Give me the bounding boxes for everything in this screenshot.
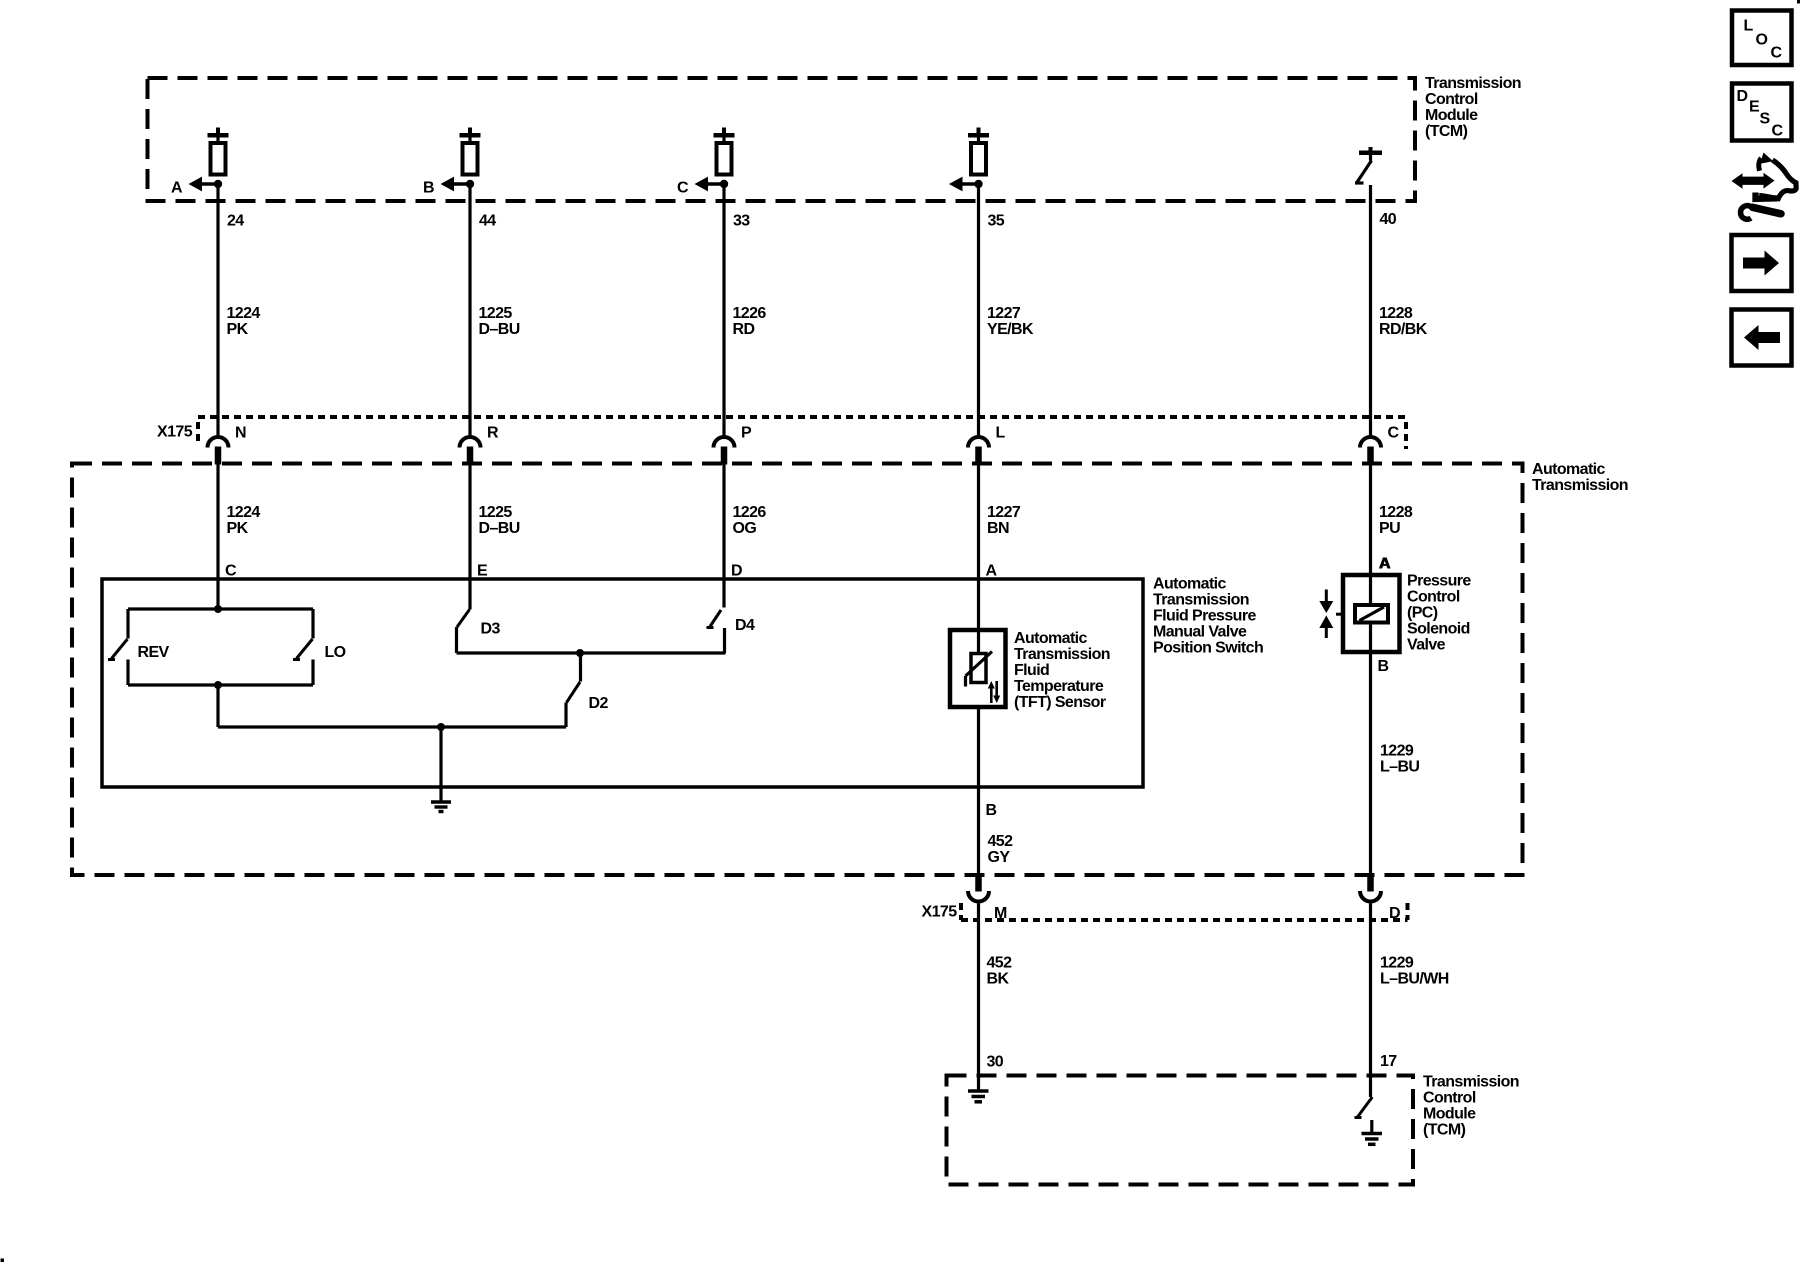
- svg-text:BN: BN: [987, 520, 1009, 537]
- svg-text:OG: OG: [733, 520, 757, 537]
- icon: back arrow box: [1732, 310, 1792, 366]
- wire 1224 PK from TCM pin to connector X175: [216, 184, 219, 438]
- svg-text:D: D: [731, 563, 742, 580]
- wire: branch top rail: [128, 607, 313, 610]
- thermistor element: [966, 652, 993, 687]
- label wire 452 GY: [988, 833, 1014, 866]
- corner mark top right: [1797, 0, 1800, 4]
- svg-text:RD/BK: RD/BK: [1379, 321, 1428, 338]
- D2 switch (closed, thrown left): [566, 653, 581, 727]
- X175 cavity D: terminal pin and connector half-circle: [1360, 875, 1381, 902]
- wire 1227 YE/BK from TCM pin to connector X175: [977, 184, 980, 438]
- X175 cavity M: terminal pin and connector half-circle: [968, 875, 989, 902]
- label wire 1229 L-BU: [1380, 743, 1419, 776]
- label wire 1225 D–BU: [479, 305, 520, 338]
- ground (switch assembly): [431, 802, 451, 812]
- svg-text:D2: D2: [589, 695, 609, 712]
- svg-text:A: A: [1379, 556, 1391, 573]
- wire 1224 PK from X175 into transmission: [216, 464, 219, 579]
- svg-text:40: 40: [1380, 211, 1397, 228]
- wire: branch to common rail: [216, 685, 219, 727]
- TFT sensor wire into sensor: [977, 630, 980, 654]
- PC solenoid label: [1407, 573, 1471, 654]
- svg-text:X175: X175: [922, 904, 958, 921]
- svg-text:GY: GY: [988, 849, 1011, 866]
- svg-text:PK: PK: [227, 520, 249, 537]
- connector X175 (bottom) dotted bracket: [961, 903, 1408, 920]
- svg-text:C: C: [1771, 45, 1783, 62]
- svg-text:C: C: [225, 563, 237, 580]
- svg-text:Valve: Valve: [1407, 637, 1446, 654]
- Automatic Transmission Fluid Temperature (TFT) Sensor box: [950, 630, 1006, 707]
- output arrow at pin 24: [189, 177, 223, 192]
- ground at TCM pin 17: [1362, 1120, 1383, 1144]
- svg-text:1224: 1224: [227, 305, 261, 322]
- switch contact at TCM pin 17: [1355, 1097, 1373, 1118]
- TFT sensor label: [1014, 630, 1110, 711]
- wire: common ground rail: [218, 725, 566, 728]
- wire 1229 L-BU/WH from X175 to TCM pin 17: [1369, 902, 1372, 1098]
- svg-text:(TCM): (TCM): [1423, 1122, 1466, 1139]
- svg-text:1229: 1229: [1380, 743, 1414, 760]
- junction of ground rail and ground drop: [437, 723, 445, 731]
- svg-text:35: 35: [988, 213, 1005, 230]
- REV switch (open): [108, 609, 128, 685]
- TCM internal driver element (fuse symbol) above pin 44: [460, 128, 481, 175]
- valve symbol (opposing arrows): [1319, 590, 1343, 639]
- X175 cavity C: connector half-circle and terminal pin: [1360, 437, 1381, 465]
- svg-text:452: 452: [987, 955, 1013, 972]
- svg-text:E: E: [1749, 99, 1760, 116]
- icon: LOC box: [1732, 11, 1792, 66]
- svg-text:BK: BK: [987, 971, 1010, 988]
- svg-text:Position Switch: Position Switch: [1153, 640, 1263, 657]
- wire 452 BK from X175 to TCM pin 30: [977, 902, 980, 1091]
- output arrow at pin 35: [949, 177, 983, 192]
- X175 cavity R: connector half-circle and terminal pin: [460, 437, 481, 465]
- X175 cavity P: connector half-circle and terminal pin: [714, 437, 735, 465]
- svg-text:L–BU: L–BU: [1380, 759, 1419, 776]
- wire 1225 D–BU from X175 into transmission: [468, 464, 471, 579]
- wire 1228 PU from X175 into transmission: [1369, 464, 1372, 575]
- icon: schematic navigation (arrows and wrench): [1732, 153, 1797, 220]
- svg-text:D4: D4: [735, 617, 755, 634]
- svg-text:E: E: [477, 563, 488, 580]
- svg-text:L: L: [1744, 18, 1754, 35]
- svg-text:Fluid: Fluid: [1014, 662, 1049, 679]
- D4 switch (open): [707, 579, 725, 653]
- svg-text:X175: X175: [157, 424, 193, 441]
- wire 1225 D–BU from TCM pin to connector X175: [468, 184, 471, 438]
- svg-text:Control: Control: [1423, 1090, 1476, 1107]
- connector X175 (top) dotted bracket: [198, 417, 1406, 449]
- svg-text:M: M: [994, 905, 1007, 922]
- X175 cavity L: connector half-circle and terminal pin: [968, 437, 989, 465]
- output arrow at pin 44: [441, 177, 475, 192]
- wire 1229 L-BU from solenoid to X175: [1369, 652, 1372, 875]
- wire 1227 BN from X175 into transmission: [977, 464, 980, 630]
- ground at TCM pin 30: [968, 1091, 989, 1102]
- label wire 1227 YE/BK: [987, 305, 1034, 338]
- svg-text:Control: Control: [1425, 91, 1478, 108]
- label wire 1226 OG (transmission side): [733, 504, 767, 537]
- TCM internal switch contact at pin 40: [1355, 147, 1382, 183]
- svg-text:Temperature: Temperature: [1014, 678, 1104, 695]
- svg-text:(PC): (PC): [1407, 605, 1438, 622]
- svg-text:1229: 1229: [1380, 955, 1414, 972]
- svg-text:C: C: [677, 180, 689, 197]
- svg-text:24: 24: [227, 213, 244, 230]
- svg-text:O: O: [1756, 32, 1768, 49]
- stray mark bottom left: [1, 1259, 5, 1263]
- svg-text:YE/BK: YE/BK: [987, 321, 1034, 338]
- solenoid coil: [1355, 575, 1388, 652]
- TFT up/down arrows: [988, 681, 1000, 703]
- svg-text:L: L: [996, 425, 1006, 442]
- svg-text:Fluid Pressure: Fluid Pressure: [1153, 608, 1256, 625]
- svg-text:Automatic: Automatic: [1014, 630, 1088, 647]
- svg-text:1227: 1227: [987, 504, 1021, 521]
- icon: forward arrow box: [1732, 235, 1792, 291]
- svg-text:Manual Valve: Manual Valve: [1153, 624, 1247, 641]
- wire: TFT sensor to connector, terminal B: [977, 707, 980, 875]
- svg-text:B: B: [986, 802, 997, 819]
- wire 1228 RD/BK from TCM pin to connector X175: [1369, 185, 1372, 438]
- svg-text:Pressure: Pressure: [1407, 573, 1471, 590]
- svg-text:44: 44: [479, 213, 496, 230]
- svg-text:1228: 1228: [1379, 305, 1413, 322]
- svg-text:D–BU: D–BU: [479, 520, 520, 537]
- svg-text:D: D: [1737, 88, 1748, 105]
- LO switch (open): [293, 609, 313, 685]
- svg-text:Transmission: Transmission: [1153, 592, 1249, 609]
- TCM internal driver element (fuse symbol) above pin 24: [208, 128, 229, 175]
- label wire 1229 L-BU/WH: [1380, 955, 1449, 988]
- svg-text:Transmission: Transmission: [1425, 75, 1521, 92]
- svg-text:Transmission: Transmission: [1014, 646, 1110, 663]
- switch assembly label: [1153, 576, 1263, 657]
- svg-text:1226: 1226: [733, 305, 767, 322]
- wire 1226 OG from X175 into transmission: [722, 464, 725, 579]
- label wire 1224 PK: [227, 305, 261, 338]
- svg-text:Solenoid: Solenoid: [1407, 621, 1470, 638]
- svg-text:1226: 1226: [733, 504, 767, 521]
- Transmission Control Module (TCM) top dashed box: [148, 78, 1416, 201]
- svg-text:S: S: [1760, 111, 1771, 128]
- wire: branch bottom rail: [128, 683, 313, 686]
- X175 cavity N: connector half-circle and terminal pin: [208, 437, 229, 465]
- svg-text:P: P: [741, 425, 752, 442]
- svg-text:R: R: [487, 425, 499, 442]
- label wire 1228 RD/BK: [1379, 305, 1428, 338]
- TCM internal driver element (fuse symbol) above pin 33: [714, 128, 735, 175]
- TCM top label: [1425, 75, 1521, 140]
- svg-text:33: 33: [733, 213, 750, 230]
- svg-text:L–BU/WH: L–BU/WH: [1380, 971, 1449, 988]
- svg-text:PK: PK: [227, 321, 249, 338]
- wire: terminal C down to REV/LO branch junction: [216, 579, 219, 609]
- svg-text:Automatic: Automatic: [1532, 461, 1606, 478]
- Automatic Transmission label: [1532, 461, 1628, 494]
- svg-text:(TCM): (TCM): [1425, 123, 1468, 140]
- TCM internal driver element (fuse symbol) above pin 35: [968, 128, 989, 175]
- wire 1226 RD from TCM pin to connector X175: [722, 184, 725, 438]
- Automatic Transmission dashed box: [72, 464, 1523, 876]
- svg-text:PU: PU: [1379, 520, 1400, 537]
- Automatic Transmission Fluid Pressure Manual Valve Position Switch box: [102, 579, 1143, 787]
- svg-text:Module: Module: [1423, 1106, 1476, 1123]
- svg-text:LO: LO: [325, 644, 346, 661]
- svg-text:D–BU: D–BU: [479, 321, 520, 338]
- svg-text:1228: 1228: [1379, 504, 1413, 521]
- svg-text:(TFT) Sensor: (TFT) Sensor: [1014, 694, 1106, 711]
- label wire 1228 PU (transmission side): [1379, 504, 1413, 537]
- label wire 1227 BN (transmission side): [987, 504, 1021, 537]
- junction at top of REV/LO branch: [214, 605, 222, 613]
- svg-text:C: C: [1388, 425, 1400, 442]
- svg-text:Control: Control: [1407, 589, 1460, 606]
- svg-text:RD: RD: [733, 321, 755, 338]
- svg-text:D: D: [1389, 905, 1400, 922]
- svg-text:17: 17: [1380, 1053, 1397, 1070]
- label wire 1224 PK (transmission side): [227, 504, 261, 537]
- wire: D3/D4 horizontal rail: [457, 651, 726, 654]
- svg-text:B: B: [1378, 658, 1389, 675]
- svg-text:Transmission: Transmission: [1423, 1074, 1519, 1091]
- Pressure Control (PC) Solenoid Valve box: [1343, 575, 1400, 652]
- svg-text:1227: 1227: [987, 305, 1021, 322]
- svg-text:1225: 1225: [479, 305, 513, 322]
- D3 switch (closed, thrown left): [457, 579, 471, 653]
- svg-text:N: N: [235, 425, 246, 442]
- svg-text:30: 30: [987, 1054, 1004, 1071]
- Transmission Control Module (TCM) bottom dashed box: [947, 1076, 1414, 1185]
- TCM bottom label: [1423, 1074, 1519, 1139]
- svg-text:A: A: [986, 563, 998, 580]
- junction at bottom of REV/LO branch: [214, 681, 222, 689]
- label wire 452 BK: [987, 955, 1013, 988]
- svg-text:Transmission: Transmission: [1532, 477, 1628, 494]
- label wire 1225 D–BU (transmission side): [479, 504, 520, 537]
- svg-text:452: 452: [988, 833, 1014, 850]
- wire: ground drop: [439, 727, 442, 802]
- icon: DESC box: [1732, 84, 1792, 141]
- svg-text:D3: D3: [481, 621, 501, 638]
- svg-text:REV: REV: [138, 644, 170, 661]
- svg-text:C: C: [1772, 123, 1784, 140]
- svg-text:1224: 1224: [227, 504, 261, 521]
- svg-text:1225: 1225: [479, 504, 513, 521]
- svg-text:Automatic: Automatic: [1153, 576, 1227, 593]
- svg-text:A: A: [171, 180, 183, 197]
- output arrow at pin 33: [695, 177, 729, 192]
- junction of rail and D2: [576, 649, 584, 657]
- svg-text:Module: Module: [1425, 107, 1478, 124]
- label wire 1226 RD: [733, 305, 767, 338]
- svg-text:B: B: [423, 180, 434, 197]
